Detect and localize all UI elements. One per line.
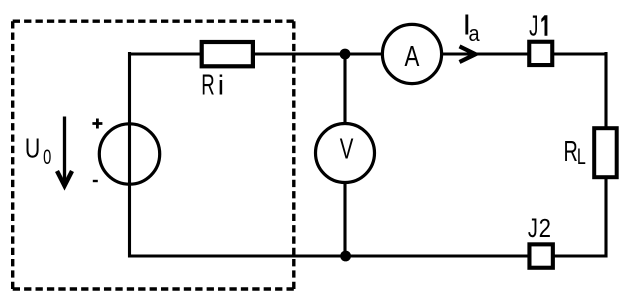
svg-text:0: 0 — [43, 144, 51, 169]
svg-text:J: J — [528, 213, 538, 242]
svg-text:U: U — [25, 133, 40, 165]
svg-text:2: 2 — [539, 214, 551, 243]
svg-text:R: R — [201, 69, 214, 101]
svg-text:i: i — [218, 69, 224, 101]
svg-text:J: J — [529, 11, 538, 43]
svg-text:a: a — [468, 21, 479, 46]
svg-text:A: A — [404, 41, 420, 72]
svg-text:R: R — [563, 137, 577, 168]
svg-text:L: L — [577, 144, 586, 169]
svg-text:V: V — [340, 133, 354, 165]
